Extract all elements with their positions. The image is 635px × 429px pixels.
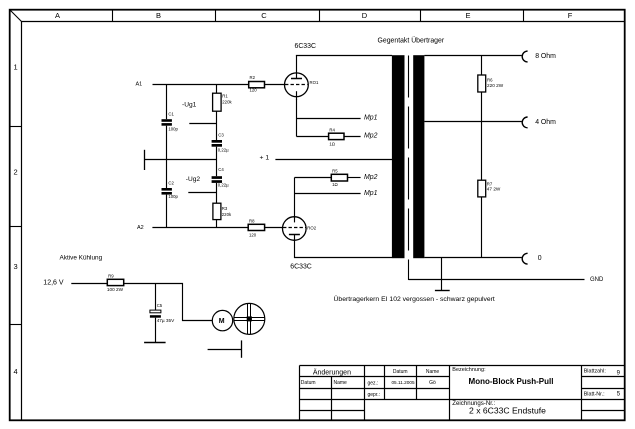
svg-text:47 2W: 47 2W (487, 187, 501, 192)
svg-text:R2: R2 (250, 75, 256, 80)
svg-text:Blatt-Nr.:: Blatt-Nr.: (584, 392, 605, 398)
wire to R5 (295, 177, 332, 179)
resistor R2 (249, 75, 265, 93)
wire secondary rail upper (481, 56, 483, 76)
svg-text:RO1: RO1 (310, 80, 319, 85)
svg-text:0: 0 (538, 255, 542, 262)
motor M1 (212, 310, 232, 330)
title block (300, 366, 625, 421)
connector 4 Ohm (522, 117, 556, 128)
svg-text:gez.:: gez.: (368, 380, 379, 386)
svg-text:Blattzahl:: Blattzahl: (584, 368, 606, 374)
wire transformer ground drop (441, 258, 443, 291)
wire mid rail (C4 to R3) (216, 183, 218, 203)
svg-text:Mp2: Mp2 (364, 174, 378, 181)
svg-text:220k: 220k (222, 100, 232, 105)
connector 0 (522, 253, 542, 264)
wire GND rail (409, 279, 585, 281)
svg-text:R9: R9 (108, 274, 114, 279)
label Aktive Kuehlung (60, 255, 103, 262)
svg-text:R3: R3 (222, 206, 228, 211)
wire RO2 cathode up (294, 178, 296, 219)
wire R5 to Mp2 (348, 177, 361, 179)
node -Ug2 (186, 176, 201, 183)
capacitor C4 (212, 167, 230, 188)
svg-text:Übertragerkern EI 102 vergosse: Übertragerkern EI 102 vergossen - schwar… (334, 295, 495, 303)
svg-text:Mp1: Mp1 (364, 115, 378, 122)
node -Ug1 (182, 102, 197, 109)
svg-text:F: F (568, 11, 573, 20)
resistor R3 (213, 203, 232, 219)
svg-text:100 2W: 100 2W (107, 287, 124, 292)
tube RO2 (283, 217, 317, 241)
svg-text:12,6 V: 12,6 V (43, 279, 64, 286)
resistor R9 (107, 274, 124, 292)
svg-text:-Ug2: -Ug2 (186, 176, 201, 183)
node A2 (137, 225, 144, 231)
svg-text:05.11.2005: 05.11.2005 (391, 380, 415, 385)
svg-text:A1: A1 (136, 82, 143, 88)
svg-text:4 Ohm: 4 Ohm (535, 119, 556, 126)
tube label 6C33C upper (295, 43, 316, 50)
wire R8 to RO2 grid (265, 227, 283, 229)
node Mp2 upper (364, 133, 378, 140)
svg-text:4: 4 (14, 367, 18, 376)
svg-text:1Ω: 1Ω (332, 182, 338, 187)
wire secondary bottom to 0 (424, 257, 521, 259)
note transformer core (334, 295, 495, 303)
svg-text:+ 1: + 1 (260, 155, 270, 162)
svg-text:C4: C4 (218, 167, 224, 172)
wire R9 to corner (124, 284, 213, 321)
wire -Ug2 stub (188, 192, 216, 194)
svg-text:Bezeichnung:: Bezeichnung: (452, 367, 486, 373)
wire Mp1 upper (297, 118, 361, 120)
svg-text:220k: 220k (222, 212, 232, 217)
svg-text:Aktive Kühlung: Aktive Kühlung (60, 255, 103, 262)
wire R2 to RO1 grid (265, 84, 285, 86)
node Mp1 upper (364, 115, 378, 122)
svg-text:3: 3 (14, 262, 18, 271)
transformer core (408, 56, 410, 281)
svg-text:0,22µ: 0,22µ (218, 183, 229, 188)
capacitor C2 (162, 181, 179, 199)
capacitor C3 (212, 133, 230, 153)
wire -Ug1 stub (189, 123, 216, 125)
capacitor C1 (162, 111, 179, 131)
node +1 (260, 155, 270, 162)
svg-text:100p: 100p (168, 126, 178, 131)
resistor R6 (478, 75, 504, 92)
svg-text:M: M (219, 318, 225, 325)
svg-text:A2: A2 (137, 225, 144, 231)
svg-text:Name: Name (426, 369, 440, 375)
wire mid rail (R1 to C3) (216, 111, 218, 140)
wire mid rail (A1 to R1) (216, 85, 218, 94)
svg-text:A: A (55, 11, 60, 20)
svg-text:Gö: Gö (429, 380, 436, 386)
wire R4 to Mp2 (344, 136, 361, 138)
wire mid rail (R3 to A2) (216, 220, 218, 228)
resistor R7 (478, 180, 501, 197)
resistor R1 (213, 93, 233, 111)
resistor R5 (331, 169, 347, 188)
svg-text:GND: GND (590, 277, 604, 283)
wire Mp1 lower (295, 193, 361, 195)
svg-text:2: 2 (14, 168, 18, 177)
wire A2 rail (152, 227, 248, 229)
node 12,6 V (43, 279, 64, 286)
svg-text:100p: 100p (168, 194, 178, 199)
svg-text:0,22µ: 0,22µ (218, 147, 229, 152)
transformer primary winding (392, 55, 405, 258)
svg-text:C: C (261, 11, 267, 20)
capacitor C5 (150, 303, 175, 323)
svg-text:Gegentakt Übertrager: Gegentakt Übertrager (378, 36, 445, 44)
svg-text:120: 120 (250, 88, 258, 93)
transformer secondary winding (413, 55, 424, 258)
resistor R8 (248, 219, 264, 238)
node A1 (136, 82, 143, 88)
svg-text:R8: R8 (249, 219, 255, 224)
wire mid rail (C3 to C4) (216, 147, 218, 177)
svg-text:R6: R6 (487, 77, 493, 82)
svg-text:47µ 35V: 47µ 35V (157, 318, 175, 323)
transformer label (378, 36, 445, 44)
svg-text:2 x 6C33C Endstufe: 2 x 6C33C Endstufe (469, 406, 546, 416)
tube RO1 (285, 56, 319, 101)
tube label 6C33C lower (290, 264, 311, 271)
svg-text:Mp1: Mp1 (364, 190, 378, 197)
svg-text:C5: C5 (157, 303, 163, 308)
svg-text:B: B (156, 11, 161, 20)
wire C5 to ground (155, 318, 157, 343)
svg-text:220 2W: 220 2W (487, 83, 504, 88)
wire A1 rail (153, 84, 249, 86)
wire left rail upper (A1 to C1) (166, 85, 168, 120)
terminal bottom (208, 340, 242, 357)
svg-text:C1: C1 (168, 111, 174, 116)
svg-text:C2: C2 (168, 181, 174, 186)
svg-text:Name: Name (334, 380, 348, 386)
svg-text:E: E (465, 11, 470, 20)
wire 12,6V to R9 (71, 283, 107, 285)
wire center line (145, 159, 217, 161)
wire secondary top to 8 Ohm (424, 55, 521, 57)
svg-text:Mp2: Mp2 (364, 133, 378, 140)
svg-text:Änderungen: Änderungen (313, 369, 351, 377)
wire left rail lower (C2 to A2) (166, 195, 168, 228)
svg-text:R1: R1 (222, 94, 228, 99)
svg-text:RO2: RO2 (307, 225, 316, 230)
wire RO2 anode to transformer (295, 235, 393, 258)
terminal bar left (144, 150, 146, 170)
svg-text:8 Ohm: 8 Ohm (535, 53, 556, 60)
title block texts (301, 367, 621, 415)
node Mp1 lower (364, 190, 378, 197)
ground transformer (435, 290, 450, 292)
wire C5 drop (155, 284, 157, 311)
wire RO1 cathode down (296, 99, 298, 137)
wire +1 to transformer center tap (275, 159, 392, 161)
wire RO1 anode to transformer (296, 55, 392, 57)
svg-text:120: 120 (249, 232, 257, 237)
svg-text:Datum: Datum (301, 380, 316, 386)
svg-text:R5: R5 (332, 169, 338, 174)
svg-text:D: D (362, 11, 368, 20)
node GND (590, 277, 604, 283)
ground C5 (144, 342, 166, 344)
wire to R4 (297, 136, 329, 138)
wire secondary rail lower (481, 197, 483, 258)
svg-text:Datum: Datum (393, 369, 408, 375)
fan (234, 303, 265, 334)
wire secondary rail middle (481, 92, 483, 180)
svg-text:6C33C: 6C33C (295, 43, 316, 50)
svg-text:R4: R4 (329, 127, 335, 132)
wire secondary tap to 4 Ohm (424, 121, 521, 123)
wire left rail middle (C1 to C2) (166, 126, 168, 188)
svg-text:6C33C: 6C33C (290, 264, 311, 271)
svg-text:1: 1 (14, 63, 18, 72)
svg-text:-Ug1: -Ug1 (182, 102, 197, 109)
resistor R4 (329, 127, 344, 146)
svg-text:Mono-Block Push-Pull: Mono-Block Push-Pull (469, 377, 554, 386)
svg-text:C3: C3 (218, 133, 224, 138)
svg-text:1Ω: 1Ω (329, 142, 335, 147)
svg-text:gepr.:: gepr.: (368, 392, 381, 398)
connector 8 Ohm (522, 51, 556, 62)
node Mp2 lower (364, 174, 378, 181)
